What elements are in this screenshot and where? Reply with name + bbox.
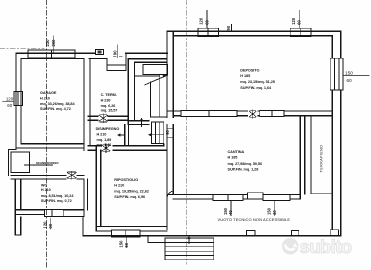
svg-text:SUP.FIN. mq. 4,72: SUP.FIN. mq. 4,72	[40, 107, 71, 111]
svg-text:120: 120	[42, 221, 47, 229]
bottom wall pier 2	[292, 230, 299, 235]
door gap stair/cantina in long wall	[166, 118, 175, 124]
axis dash-dot line right vertical	[185, 0, 187, 264]
window left garage	[14, 92, 23, 106]
wall c.term bottom	[88, 116, 129, 120]
label cantina	[228, 150, 263, 171]
dim tick wc window	[49, 219, 51, 230]
svg-text:120: 120	[291, 17, 296, 25]
stair landing	[143, 65, 167, 75]
stairwell bottom wall	[128, 121, 149, 125]
dim tick window1	[206, 10, 208, 28]
svg-text:SCANNAFOSSO: SCANNAFOSSO	[36, 161, 59, 165]
dim text 150/40 cantina w1	[223, 207, 233, 215]
dim tick cantina w1	[230, 201, 232, 216]
ripostiglio bottom wall	[96, 227, 167, 231]
door mark disimpegno/ripostiglio	[102, 144, 110, 153]
svg-text:mq. 8,51/mq. 10,24: mq. 8,51/mq. 10,24	[41, 194, 74, 198]
svg-text:SUP.FIN. mq. 1,28: SUP.FIN. mq. 1,28	[228, 168, 259, 172]
svg-text:mq. 15,57: mq. 15,57	[101, 109, 118, 113]
window divider 1	[181, 111, 237, 117]
svg-text:DISIMPEGNO: DISIMPEGNO	[96, 127, 120, 131]
axis dash-dot line left vertical	[46, 0, 48, 268]
dim text 230/200	[45, 39, 56, 47]
svg-text:60: 60	[204, 19, 209, 24]
label c.term	[101, 93, 118, 112]
svg-text:H 185: H 185	[228, 156, 238, 160]
ripostiglio door arc	[167, 191, 173, 199]
dim text 150/40 cantina w3	[267, 207, 277, 215]
window right deposito	[330, 58, 343, 90]
wc left wall	[15, 179, 20, 235]
wall top inner garage	[21, 58, 84, 60]
door mark deposito/cantina	[249, 110, 256, 118]
wall garage bottom	[16, 144, 84, 148]
label ripostiglio	[114, 178, 149, 199]
stair flight lines	[135, 76, 168, 118]
cantina bottom wall	[167, 195, 300, 199]
divider wall deposito/cantina	[167, 111, 332, 116]
svg-text:H 185: H 185	[240, 74, 250, 78]
stair up arrow interior	[141, 120, 143, 127]
label garage	[40, 91, 75, 111]
svg-text:TERRAPIENO: TERRAPIENO	[319, 145, 324, 173]
terrapieno strip	[311, 116, 332, 194]
svg-text:SUP.FIN. mq. 6,96: SUP.FIN. mq. 6,96	[114, 195, 145, 199]
stair direction line lower flight	[151, 134, 164, 136]
svg-text:VUOTO TECNICO NON ACCESSIBILE: VUOTO TECNICO NON ACCESSIBILE	[218, 217, 291, 222]
ripostiglio top wall	[88, 144, 167, 150]
svg-text:H 210: H 210	[114, 183, 124, 187]
stair cut diagonal	[145, 75, 167, 85]
window wc bottom	[44, 210, 63, 217]
dim text 150/60 ripostiglio window	[119, 240, 130, 248]
wall top outer garage	[16, 52, 95, 54]
wall left outer	[15, 53, 17, 149]
wall garage right / c.term left	[84, 59, 90, 151]
svg-text:90: 90	[226, 25, 231, 30]
svg-text:GARAGE: GARAGE	[40, 91, 57, 95]
svg-text:SUP.FIN. mq. 0,72: SUP.FIN. mq. 0,72	[41, 199, 72, 203]
pillar entrance	[95, 49, 103, 54]
dim tick window2	[298, 10, 300, 28]
svg-text:C. TERM.: C. TERM.	[101, 93, 117, 97]
wc right wall	[84, 179, 88, 217]
svg-text:60: 60	[48, 223, 53, 228]
long wall deposito-left / stair-right / cantina-left	[167, 31, 173, 229]
svg-text:60: 60	[7, 103, 12, 108]
svg-text:mq. 19,35/mq. 22,62: mq. 19,35/mq. 22,62	[114, 190, 149, 194]
svg-text:mq. 1,46: mq. 1,46	[97, 143, 112, 147]
svg-text:40: 40	[272, 210, 277, 215]
dim tick ripostiglio window	[126, 237, 128, 248]
dim text 150/60 window right	[344, 70, 370, 83]
svg-text:RIPOSTIGLIO: RIPOSTIGLIO	[114, 178, 138, 182]
door mark entrance 90 ticks	[114, 56, 123, 58]
dim tick door 90 deposito	[231, 25, 233, 32]
wall corridor right below stairwell	[125, 124, 129, 145]
stair lower flight	[152, 122, 164, 144]
svg-text:120: 120	[6, 97, 14, 102]
window cantina bottom 3	[263, 194, 290, 200]
svg-text:40: 40	[228, 210, 233, 215]
window cantina bottom 2	[248, 193, 264, 199]
wall c.term right / stairwell left	[128, 59, 134, 125]
dim text 120/60 wc window	[42, 221, 53, 229]
watermark subito logo	[282, 236, 352, 257]
svg-text:mq. 6,26: mq. 6,26	[101, 104, 116, 108]
window deposito top 2	[290, 28, 311, 36]
label disimpegno	[96, 127, 120, 147]
wc top wall	[11, 175, 84, 179]
svg-text:H 210: H 210	[97, 133, 107, 137]
svg-text:60: 60	[124, 242, 129, 247]
svg-text:subito: subito	[300, 236, 352, 257]
svg-text:H 210: H 210	[41, 188, 51, 192]
door arrow disimpegno right	[118, 134, 125, 136]
label deposito	[240, 69, 275, 90]
exterior stair bottom	[165, 238, 214, 260]
svg-text:SUP.FIN. mq. 1,64: SUP.FIN. mq. 1,64	[240, 86, 272, 90]
door 90 tick entrance	[117, 45, 119, 58]
wall left inner	[20, 59, 22, 144]
dim text 120/60 deposito top w2	[291, 17, 302, 25]
deposito top wall	[167, 31, 341, 36]
wall top outer stair section	[126, 52, 167, 54]
entrance steps	[107, 53, 126, 70]
scannafosso leader line	[24, 164, 52, 166]
dim text 120/60 deposito top w1	[199, 17, 210, 25]
stair arrow bottom	[188, 238, 190, 244]
door mark wc	[67, 171, 76, 179]
bottom outer wall	[83, 235, 341, 237]
svg-text:mq. 1,89: mq. 1,89	[97, 138, 112, 142]
dim tick cantina w3	[274, 201, 276, 216]
svg-text:H 210: H 210	[40, 96, 50, 100]
bottom wall pier 1	[247, 230, 256, 235]
window ripostiglio bottom	[112, 230, 140, 237]
scannafosso box	[9, 150, 16, 176]
window divider 2	[260, 111, 284, 117]
window deposito top 1	[198, 28, 219, 36]
dim text 120/60 window left	[2, 97, 14, 108]
boundary step below wc	[64, 216, 83, 235]
wc bottom wall	[15, 210, 84, 215]
wall top inner c.term	[89, 58, 107, 60]
svg-text:CANTINA: CANTINA	[228, 150, 245, 154]
svg-text:60: 60	[347, 78, 353, 83]
svg-text:mq. 33,26/mq. 38,84: mq. 33,26/mq. 38,84	[40, 102, 75, 106]
svg-text:mq. 23,15/mq. 51,25: mq. 23,15/mq. 51,25	[240, 80, 275, 84]
dimension 230/200 tick line top	[53, 36, 55, 53]
svg-text:230: 230	[45, 39, 50, 47]
right outer wall	[332, 31, 341, 236]
door gap deposito/cantina	[248, 110, 257, 117]
svg-text:H 230: H 230	[101, 99, 111, 103]
svg-text:90: 90	[165, 129, 170, 134]
svg-text:150: 150	[119, 240, 124, 248]
label wc	[41, 184, 74, 204]
svg-text:200: 200	[51, 39, 56, 47]
svg-text:DEPOSITO: DEPOSITO	[240, 69, 259, 73]
door mark disimpegno/c.term	[99, 114, 108, 123]
ripostiglio left wall	[96, 146, 101, 231]
svg-text:60: 60	[297, 19, 302, 24]
svg-text:90: 90	[112, 50, 117, 55]
bottom wall pier right corner	[330, 230, 338, 236]
boundary step left of exterior stair	[148, 236, 165, 243]
cantina right wall	[300, 116, 305, 199]
svg-text:WC: WC	[41, 184, 48, 188]
wc left wall stub bottom	[15, 217, 20, 235]
window cantina bottom 1	[213, 194, 243, 200]
svg-text:120: 120	[199, 17, 204, 25]
window top garage	[28, 50, 75, 58]
axis dash-dot line horizontal top-left	[0, 48, 44, 50]
svg-text:150: 150	[345, 70, 353, 75]
stairwell top wall	[128, 59, 167, 63]
svg-text:mq. 27,98/mq. 50,56: mq. 27,98/mq. 50,56	[228, 162, 263, 166]
